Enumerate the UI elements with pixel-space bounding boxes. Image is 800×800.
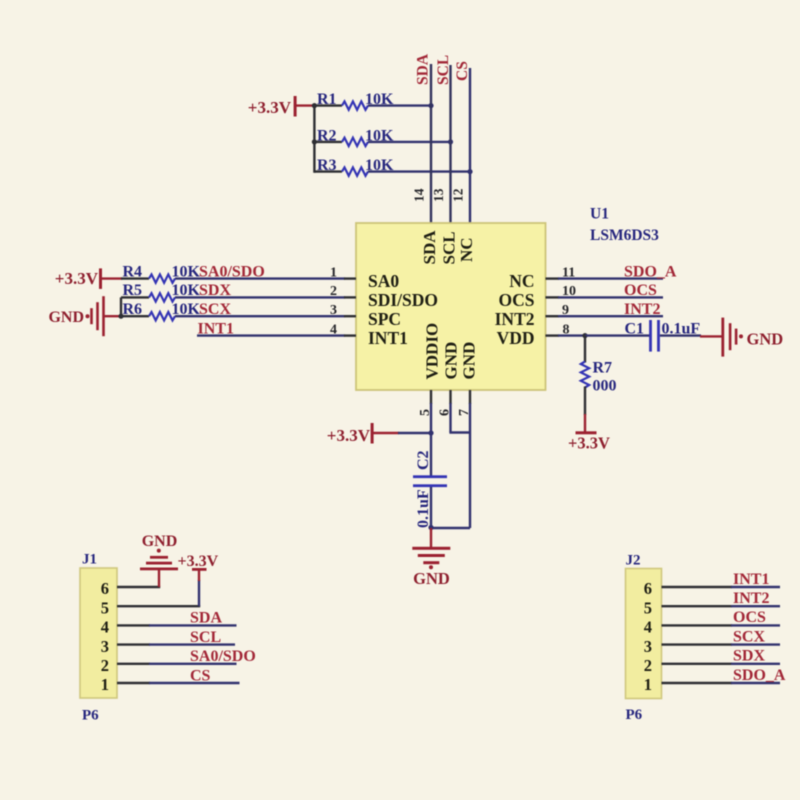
svg-text:INT1: INT1 xyxy=(733,571,769,588)
svg-text:1: 1 xyxy=(330,265,337,280)
svg-text:7: 7 xyxy=(457,409,472,416)
svg-text:SDA: SDA xyxy=(415,53,432,85)
svg-text:NC: NC xyxy=(509,271,534,291)
svg-text:9: 9 xyxy=(562,303,569,318)
svg-text:10K: 10K xyxy=(365,127,394,144)
svg-text:R5: R5 xyxy=(123,282,143,299)
svg-text:+3.3V: +3.3V xyxy=(178,553,219,570)
svg-text:2: 2 xyxy=(644,656,652,675)
svg-text:8: 8 xyxy=(563,322,570,337)
svg-text:P6: P6 xyxy=(626,707,643,723)
svg-text:0.1uF: 0.1uF xyxy=(415,489,432,528)
svg-text:P6: P6 xyxy=(82,708,99,724)
svg-text:R3: R3 xyxy=(317,157,337,174)
svg-text:SDA: SDA xyxy=(190,610,222,627)
svg-text:10K: 10K xyxy=(172,282,201,299)
svg-text:SDO_A: SDO_A xyxy=(624,263,677,280)
svg-text:INT2: INT2 xyxy=(624,301,660,318)
svg-text:5: 5 xyxy=(418,409,433,416)
svg-text:SCX: SCX xyxy=(199,301,231,318)
svg-text:J1: J1 xyxy=(82,552,97,568)
svg-text:GND: GND xyxy=(442,342,461,380)
svg-text:000: 000 xyxy=(593,378,617,395)
svg-text:R1: R1 xyxy=(317,91,337,108)
svg-text:CS: CS xyxy=(454,61,471,81)
svg-text:3: 3 xyxy=(330,303,337,318)
svg-text:INT2: INT2 xyxy=(495,309,535,329)
svg-text:3: 3 xyxy=(101,637,109,656)
svg-text:10K: 10K xyxy=(365,157,394,174)
svg-text:4: 4 xyxy=(101,618,109,637)
svg-text:INT2: INT2 xyxy=(733,590,769,607)
svg-text:GND: GND xyxy=(48,309,84,326)
svg-text:VDDIO: VDDIO xyxy=(423,323,442,380)
svg-text:J2: J2 xyxy=(626,553,641,569)
svg-text:SDO_A: SDO_A xyxy=(733,667,786,684)
svg-text:3: 3 xyxy=(644,637,652,656)
svg-text:SA0/SDO: SA0/SDO xyxy=(199,263,265,280)
svg-text:5: 5 xyxy=(644,598,652,617)
svg-text:NC: NC xyxy=(457,237,476,262)
svg-text:2: 2 xyxy=(101,656,109,675)
svg-text:U1: U1 xyxy=(590,206,609,223)
svg-text:SDA: SDA xyxy=(420,230,439,265)
svg-text:LSM6DS3: LSM6DS3 xyxy=(590,227,659,244)
svg-text:13: 13 xyxy=(431,188,446,202)
svg-text:6: 6 xyxy=(101,579,109,598)
svg-text:SCL: SCL xyxy=(440,231,459,264)
svg-text:SA0/SDO: SA0/SDO xyxy=(190,648,256,665)
svg-text:1: 1 xyxy=(101,675,109,694)
svg-text:4: 4 xyxy=(330,322,337,337)
svg-text:SCL: SCL xyxy=(190,629,221,646)
svg-text:2: 2 xyxy=(330,284,337,299)
svg-text:OCS: OCS xyxy=(624,282,657,299)
svg-text:C2: C2 xyxy=(415,450,432,470)
svg-text:+3.3V: +3.3V xyxy=(568,434,610,453)
svg-text:10K: 10K xyxy=(172,263,201,280)
svg-text:CS: CS xyxy=(190,667,211,684)
svg-text:10: 10 xyxy=(562,284,576,299)
svg-text:10K: 10K xyxy=(172,301,201,318)
svg-text:+3.3V: +3.3V xyxy=(55,269,99,288)
svg-text:+3.3V: +3.3V xyxy=(248,98,292,117)
svg-text:GND: GND xyxy=(460,342,479,380)
svg-text:SPC: SPC xyxy=(368,309,401,329)
svg-text:SDX: SDX xyxy=(199,282,231,299)
svg-text:GND: GND xyxy=(747,330,784,349)
svg-text:SA0: SA0 xyxy=(368,271,399,291)
svg-text:C1: C1 xyxy=(625,320,645,337)
svg-text:OCS: OCS xyxy=(499,290,535,310)
svg-text:INT1: INT1 xyxy=(198,320,234,337)
svg-text:+3.3V: +3.3V xyxy=(327,426,371,445)
svg-text:6: 6 xyxy=(644,579,652,598)
svg-text:12: 12 xyxy=(451,188,466,202)
svg-text:11: 11 xyxy=(562,265,575,280)
svg-text:14: 14 xyxy=(412,188,427,202)
svg-text:1: 1 xyxy=(644,675,652,694)
svg-text:SCX: SCX xyxy=(733,628,765,645)
svg-text:R7: R7 xyxy=(593,360,613,377)
svg-text:R2: R2 xyxy=(317,127,337,144)
svg-text:INT1: INT1 xyxy=(368,328,408,348)
svg-text:R6: R6 xyxy=(123,301,143,318)
svg-text:10K: 10K xyxy=(365,91,394,108)
svg-text:VDD: VDD xyxy=(497,328,535,348)
svg-text:GND: GND xyxy=(413,569,450,588)
svg-text:5: 5 xyxy=(101,598,109,617)
svg-text:GND: GND xyxy=(142,533,178,550)
svg-text:4: 4 xyxy=(644,618,652,637)
svg-text:SDI/SDO: SDI/SDO xyxy=(368,290,438,310)
svg-text:OCS: OCS xyxy=(733,609,766,626)
svg-text:R4: R4 xyxy=(123,263,143,280)
svg-text:SCL: SCL xyxy=(435,55,452,85)
svg-text:SDX: SDX xyxy=(733,648,765,665)
svg-text:6: 6 xyxy=(438,409,453,416)
